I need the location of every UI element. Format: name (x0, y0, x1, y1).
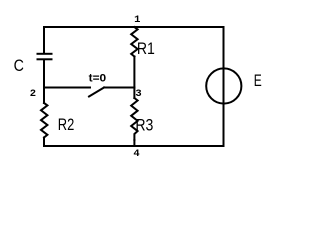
wire bottom rail (44, 145, 224, 147)
svg-text:R2: R2 (58, 115, 75, 134)
svg-text:E: E (254, 71, 262, 90)
resistor R2 (41, 103, 47, 138)
wire right rail (223, 27, 225, 146)
wire capacitor to node 2 (43, 60, 45, 103)
wire left upper (to capacitor) (43, 27, 45, 53)
svg-text:1: 1 (134, 14, 140, 26)
wire R1 to node 3 (133, 57, 135, 99)
svg-text:4: 4 (133, 148, 139, 160)
wire R2 bottom (43, 138, 45, 147)
switch blade t=0 (89, 88, 104, 97)
resistor R3 (131, 98, 137, 140)
capacitor C (38, 54, 52, 60)
wire node2 to switch (44, 87, 90, 89)
wire R3 to node 4 (133, 140, 135, 146)
svg-text:3: 3 (135, 88, 141, 100)
source E circle (206, 68, 241, 103)
resistor R1 (131, 27, 137, 57)
wire switch to node 3 (104, 87, 134, 89)
svg-text:t=0: t=0 (89, 73, 107, 85)
svg-text:C: C (14, 56, 24, 75)
svg-text:R3: R3 (135, 115, 153, 134)
wire top (node 1 rail) (44, 26, 224, 28)
svg-text:R1: R1 (137, 39, 155, 58)
svg-text:2: 2 (30, 88, 36, 100)
